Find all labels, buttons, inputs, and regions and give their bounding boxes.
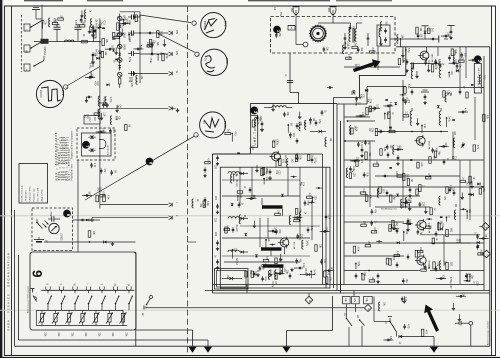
test line to oscillogram 2 (159, 34, 195, 52)
VHF osc coil (453, 138, 455, 148)
svg-text:560: 560 (278, 258, 280, 263)
oscillogram circle O3 square pulse (36, 80, 63, 107)
wire test lead 2 (140, 53, 168, 55)
wire from indicator box (73, 219, 79, 221)
svg-text:C13: C13 (99, 187, 101, 192)
callout badge 2 (474, 56, 481, 63)
ground arrow 1 (189, 347, 197, 353)
svg-text:10kHz: 10kHz (223, 121, 226, 129)
keyboard frame (30, 252, 136, 330)
svg-text:2n2: 2n2 (97, 187, 99, 192)
VHF upper coil row wire (410, 62, 439, 64)
UHF horizontal stub c (224, 261, 300, 263)
svg-text:C16: C16 (454, 156, 456, 161)
wire from antenna (35, 16, 37, 19)
svg-text:Halbleiter - Äquivalenztypen: Halbleiter - Äquivalenztypen (69, 131, 73, 181)
border frame right outer line (495, 6, 497, 357)
VHF vertical feed x403 (402, 47, 404, 63)
AGC diamond (364, 304, 371, 311)
indicator dashed box (32, 208, 73, 251)
svg-text:ZF 460 kHz: ZF 460 kHz (26, 190, 28, 201)
svg-text:100: 100 (239, 194, 241, 199)
IF amp base caps (407, 218, 409, 220)
svg-text:6,8p: 6,8p (427, 60, 429, 65)
svg-text:10n: 10n (454, 59, 456, 64)
svg-text:10n: 10n (94, 53, 96, 58)
decoupling box 2 (352, 296, 360, 303)
IF amp cluster mid (389, 225, 391, 232)
mid cluster res (351, 128, 353, 134)
test line from O3 up-right (68, 67, 100, 86)
svg-text:30V: 30V (175, 30, 177, 35)
svg-text:Abgl. n. Plan: Abgl. n. Plan (41, 188, 44, 201)
svg-text:TA: TA (127, 284, 130, 287)
IF output diamond 2 (483, 250, 491, 258)
resistor R604 (96, 195, 99, 202)
ground arrow 3 (283, 347, 291, 353)
svg-text:0,47µ: 0,47µ (314, 157, 316, 164)
svg-text:4,7p: 4,7p (418, 251, 420, 256)
mid cluster res2 (356, 160, 358, 167)
svg-text:VHF-Tuner: VHF-Tuner (477, 67, 481, 88)
svg-text:4,7p: 4,7p (427, 173, 429, 178)
VHF box left vertical main (340, 121, 342, 293)
svg-text:220: 220 (214, 196, 216, 201)
indicator diode column wire (119, 14, 121, 71)
IF amp bypass caps (435, 231, 437, 233)
UHF right wire b (325, 167, 327, 288)
antenna box detail cluster (344, 42, 346, 44)
UHF vertical stub a (239, 167, 241, 205)
UHF left cap row 1 (217, 155, 219, 157)
svg-text:C16: C16 (86, 114, 88, 119)
svg-text:220: 220 (455, 239, 457, 244)
VHF inner right vertical (483, 56, 485, 291)
VHF cluster row3 c (429, 157, 431, 164)
UHF vertical stub c (259, 218, 261, 247)
svg-text:Ratiodet. sym.: Ratiodet. sym. (33, 187, 36, 201)
svg-text:OA95: OA95 (123, 32, 126, 39)
VHF upper dark speckle (402, 94, 404, 96)
filter resonator outline (99, 140, 106, 149)
bottom row diode (307, 273, 310, 276)
ring feed circle (303, 42, 308, 47)
svg-text:AF 239: AF 239 (293, 241, 296, 249)
AF coupling detail cluster (162, 53, 164, 60)
svg-text:0,47µ: 0,47µ (347, 54, 349, 61)
VHF row1 labels 2 (435, 59, 437, 61)
capacitor C113 (128, 73, 132, 75)
VHF box left upper edge (405, 47, 407, 76)
VHF row3 detail cluster (373, 164, 379, 166)
UHF dark speckle (245, 234, 248, 237)
VHF neutralising cap (435, 60, 437, 62)
AM labels 2 (90, 75, 92, 77)
band switch S1b (31, 42, 42, 49)
svg-text:Abstimmung am Tastenaggregat: Abstimmung am Tastenaggregat (27, 285, 30, 313)
svg-text:220: 220 (214, 232, 216, 237)
diode arrow a (118, 25, 121, 28)
test arrow AF1 (169, 203, 173, 207)
resistor R102 vertical (93, 30, 96, 38)
IF output diamond 1 (482, 223, 490, 231)
capacitor C110 (128, 16, 132, 18)
power rail inner vertical (18, 255, 20, 340)
oscillogram circle O2 2V 50Hz (201, 49, 227, 75)
svg-text:56p: 56p (355, 102, 357, 107)
svg-text:K: K (25, 70, 29, 72)
svg-text:0,47µ: 0,47µ (271, 281, 273, 288)
VHF inner shield top (334, 97, 360, 99)
IF coupling cap (327, 87, 330, 89)
vertical wire from top border (41, 5, 43, 42)
svg-text:100: 100 (460, 57, 462, 62)
VHF vertical stub d (459, 160, 461, 243)
svg-text:C39: C39 (91, 63, 93, 68)
capacitor C103 (92, 32, 94, 42)
VHF row2 labels 2 (421, 125, 423, 127)
lamp arrow inside (51, 226, 57, 231)
antenna box internal wires (295, 17, 297, 25)
UHF diode feed (319, 130, 322, 133)
svg-text:0,1µ: 0,1µ (483, 75, 485, 80)
battery 9V (34, 239, 44, 241)
antenna terminal top-left (35, 10, 37, 17)
resistor R101 (82, 40, 88, 43)
switch contact box LW (24, 24, 30, 31)
svg-text:0,1µ: 0,1µ (395, 225, 397, 230)
top link detail cluster (428, 28, 430, 34)
border frame right inner line (491, 6, 493, 357)
IF link node 2 (344, 140, 346, 142)
choke ground (100, 102, 107, 104)
VHF box right vertical (489, 47, 491, 346)
svg-text:BA110: BA110 (235, 225, 238, 233)
band switch S1c (34, 61, 44, 67)
svg-text:4700µ C27: 4700µ C27 (449, 277, 451, 289)
resistor R605 (103, 195, 106, 202)
resistor R610 (88, 231, 91, 238)
UHF top step to right (250, 153, 322, 155)
svg-text:6,8p: 6,8p (96, 110, 98, 115)
shield bottom line 2 (205, 290, 490, 292)
UHF left cap row 2 (217, 204, 219, 206)
small IF box bottom left (215, 269, 249, 290)
corner stub wires (444, 38, 448, 40)
VHF row4 labels 2 (391, 228, 394, 230)
shield stub v1 (246, 285, 248, 294)
inner rail drop (207, 340, 209, 346)
matching transformer toothed ring (311, 26, 326, 41)
contact circle (91, 219, 93, 221)
fold dashed vertical line (187, 6, 189, 356)
UHF mixer cluster a (237, 191, 243, 193)
bottom row ground (257, 273, 259, 275)
VHF inner shield vertical a (333, 98, 335, 289)
test line to oscillogram 1 (140, 15, 191, 23)
callout badge 1 (273, 26, 280, 33)
filter box in antenna unit (377, 25, 390, 46)
svg-text:3V: 3V (175, 71, 177, 74)
svg-text:6,8p: 6,8p (206, 201, 208, 206)
ground arrow 2 (204, 347, 212, 353)
svg-text:0,47µ: 0,47µ (265, 168, 267, 175)
svg-text:330: 330 (463, 53, 465, 58)
bandwidth inner box (82, 133, 112, 156)
UHF mixer cluster b (232, 227, 234, 229)
fold crease horizontal lower (0, 309, 500, 311)
keyboard rail drop (192, 330, 194, 346)
AM detail cluster (121, 32, 123, 34)
IF amp transistor 1 (417, 220, 426, 229)
IF link wire 2 (344, 140, 375, 142)
svg-text:6,8p: 6,8p (357, 262, 359, 267)
resistor R103 below diode column (119, 77, 121, 78)
lamp diode La2 (117, 32, 122, 37)
fold strip components (205, 162, 211, 164)
VHF band coil 2 (439, 111, 441, 125)
svg-text:OA150: OA150 (304, 268, 307, 276)
svg-text:0,1µ: 0,1µ (409, 198, 411, 203)
switch U1 (346, 318, 348, 320)
svg-text:0,5p: 0,5p (318, 119, 320, 124)
svg-text:6,8p: 6,8p (352, 166, 354, 171)
vertical wire x136 (135, 252, 137, 346)
test arrow 3 (169, 72, 173, 76)
UHF cap C4 (315, 120, 317, 122)
capacitor C116 (131, 73, 134, 75)
svg-text:C18: C18 (458, 239, 460, 244)
VHF vertical stub a (389, 104, 391, 132)
VHF row2 cluster c (443, 91, 445, 98)
VHF input cluster (406, 59, 408, 61)
UHF left cap row 3 (217, 240, 219, 242)
UHF vertical stub b (299, 167, 301, 240)
VHF cluster row3 d (443, 159, 445, 161)
band switch S1a (31, 21, 42, 28)
svg-text:Drehko 510+12p: Drehko 510+12p (21, 184, 24, 201)
UHF mid 3 (297, 234, 299, 236)
vertical wire x78 (77, 160, 79, 252)
lamp diode La5 (117, 72, 122, 77)
UHF upper detail cluster (287, 159, 288, 168)
IF drop capacitor (287, 80, 293, 82)
VHF tank circuit upper (449, 55, 451, 57)
switch U2 (359, 319, 361, 321)
UHF resistor R1 (252, 120, 255, 127)
svg-text:C12: C12 (96, 81, 98, 86)
switch contact box MW (24, 45, 30, 52)
choke L1 on supply bus (98, 96, 100, 106)
svg-text:4,7p: 4,7p (419, 230, 421, 235)
keyboard bus stubs (35, 310, 37, 325)
VHF wire cap (378, 131, 381, 133)
svg-text:2,2p: 2,2p (302, 263, 304, 268)
VHF AGC row (375, 175, 460, 177)
IF drop jog (290, 93, 299, 104)
bottom page edge strip (0, 357, 500, 358)
fold crossing stubs (180, 204, 187, 206)
svg-text:0,47µ: 0,47µ (109, 97, 111, 104)
svg-text:BA110: BA110 (235, 180, 238, 188)
switch stubs to ground bus (348, 327, 350, 346)
test arrow det (169, 106, 173, 110)
svg-text:470p: 470p (149, 58, 151, 64)
main ground bus (15, 345, 490, 347)
svg-text:2V: 2V (203, 58, 206, 61)
PSU lower labels (421, 329, 423, 336)
diode arrow c (118, 66, 121, 69)
VHF left mid extra (357, 142, 359, 144)
balun resistor (288, 26, 295, 31)
bottom row cap (289, 273, 291, 275)
keyboard top bus (41, 289, 134, 291)
svg-text:75Ω: 75Ω (279, 12, 282, 17)
wire switch feed (373, 297, 375, 322)
lamp diode La4 (117, 58, 122, 63)
decoupling box 1 (343, 296, 351, 303)
keyboard contact brackets (46, 287, 50, 291)
UHF outer top-left step (213, 153, 251, 155)
svg-text:AA112: AA112 (95, 23, 98, 31)
VHF row2 cluster b (424, 94, 426, 96)
callout badge 6 (63, 210, 70, 217)
wire antenna box to VHF (390, 38, 439, 40)
IF amp emitter resistors (446, 230, 449, 237)
capacitor on link wire (430, 38, 433, 40)
VHF wire resistor (389, 130, 395, 132)
svg-text:Osz. 87,5-104: Osz. 87,5-104 (38, 187, 40, 202)
svg-text:9: 9 (29, 270, 44, 278)
svg-text:C28: C28 (369, 99, 371, 104)
VHF band coil 1 (410, 111, 412, 125)
UHF mid extra (256, 169, 258, 171)
UHF cap C2 (296, 123, 298, 125)
svg-text:4,7p: 4,7p (206, 158, 208, 163)
inner rail horizontal (19, 339, 209, 341)
muting capacitor (143, 306, 145, 310)
shield stub v2 (353, 291, 355, 297)
oscillogram circle O4 10kHz (200, 112, 226, 138)
varactor group 3 (228, 250, 239, 252)
AM bus labels cluster (79, 25, 85, 27)
fold crease horizontal upper (0, 215, 500, 217)
callout badge 3 (251, 107, 258, 114)
svg-text:470: 470 (327, 271, 329, 276)
IF amp cluster mid2 (389, 259, 391, 266)
wire detector to x100 (78, 219, 100, 221)
svg-text:560: 560 (350, 91, 352, 96)
UHF transistor T2 AF239 (280, 238, 289, 247)
svg-text:0,47µ: 0,47µ (371, 48, 373, 55)
UHF horizontal stub a (222, 195, 300, 197)
svg-text:0,47µ: 0,47µ (83, 18, 85, 25)
varactor group 2 (228, 217, 239, 219)
svg-text:0,47µ: 0,47µ (88, 63, 90, 70)
border frame left outer line (11, 6, 13, 357)
UHF bottom cluster (297, 267, 300, 269)
test point circle 5 (195, 52, 199, 56)
UHF internal wires (275, 161, 277, 167)
cap column labels (128, 34, 130, 36)
VHF vertical stub b (459, 47, 461, 90)
callout badge 8 (146, 158, 153, 165)
VHF top row 3 (470, 59, 473, 61)
left page edge strip (0, 0, 2, 358)
right upper small cluster (450, 29, 452, 31)
svg-text:470p 30V: 470p 30V (130, 77, 132, 87)
UHF line inductor 3 (263, 264, 284, 267)
VHF vertical stub c (369, 141, 371, 207)
choke area labels (125, 125, 127, 131)
VHF main wire (375, 131, 448, 133)
IF box diode (229, 277, 232, 280)
svg-text:1V: 1V (202, 121, 205, 124)
UHF transistor T1 AF2195 (272, 152, 281, 161)
VHF bottom cluster a (355, 273, 357, 275)
IF link wire 1 (348, 120, 376, 122)
svg-text:C10: C10 (102, 21, 104, 26)
PSU row cluster (458, 295, 461, 297)
mains switch lower (389, 321, 391, 323)
IF output drop from antenna box (289, 53, 291, 93)
keyboard bottom bus (36, 325, 127, 327)
svg-text:100: 100 (283, 268, 285, 273)
VHF row2 cluster d (459, 89, 461, 91)
VHF row3 labels 2 (407, 179, 409, 186)
extra vertical wires right (469, 160, 471, 220)
capacitor C605 (48, 218, 52, 220)
indicator switch (36, 222, 38, 224)
UHF box left upper stub (249, 104, 251, 116)
UHF T1 bias resistor (261, 169, 264, 176)
svg-text:10µ: 10µ (365, 298, 367, 303)
svg-text:100: 100 (352, 173, 354, 178)
UHF box top edge (250, 103, 337, 105)
svg-text:330: 330 (419, 247, 421, 252)
meter feed stub (461, 322, 469, 324)
top scan-edge dark dashes (24, 0, 63, 2)
VHF cluster row3 a (380, 149, 382, 156)
svg-text:0,1µ: 0,1µ (308, 193, 310, 198)
shield bottom line 3 (213, 292, 490, 294)
border frame bottom line (5, 355, 496, 357)
signal flow arrow top (353, 59, 381, 72)
VHF row2 detail cluster (388, 112, 390, 119)
keyboard mid bus (36, 309, 123, 311)
VHF bottom cluster b (377, 273, 379, 275)
svg-text:0,1µ: 0,1µ (264, 276, 266, 281)
UHF T1 emitter cap (269, 169, 271, 171)
UHF box left lower stub (249, 147, 251, 154)
coupling cap on 220 wire (79, 219, 82, 221)
svg-text:4,7p: 4,7p (259, 116, 261, 121)
svg-text:56p: 56p (437, 151, 439, 156)
ground arrow 3 drop (332, 296, 334, 331)
svg-text:4,7n: 4,7n (74, 20, 76, 25)
extra VHF wires 2 (344, 66, 400, 68)
vertical supply bus (99, 18, 101, 208)
svg-text:4,7p: 4,7p (463, 108, 465, 113)
mid choke (346, 168, 348, 178)
svg-text:4,7p: 4,7p (360, 142, 362, 147)
svg-text:C36: C36 (357, 64, 359, 69)
UHF cap C3 (296, 138, 298, 140)
capacitor ant1 (344, 36, 346, 38)
svg-text:220: 220 (292, 133, 294, 138)
UHF extra verticals (251, 167, 253, 196)
VHF box top edge (396, 46, 490, 48)
